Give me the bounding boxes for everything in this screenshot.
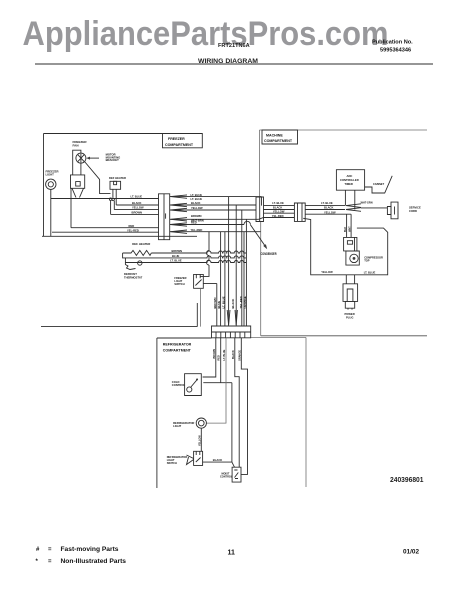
wire black out (170, 204, 256, 206)
feeder 6 with chevron (241, 210, 243, 326)
freezer bottom border (41, 326, 197, 328)
svg-text:*: * (36, 559, 39, 565)
freezer light (46, 179, 56, 189)
bracket arrow (88, 157, 99, 159)
feeder 1 (216, 284, 218, 327)
svg-text:BLACK: BLACK (273, 206, 282, 210)
service cord (391, 202, 398, 219)
svg-text:YELLOW: YELLOW (132, 206, 144, 210)
svg-text:LT. BLUE: LT. BLUE (364, 271, 376, 275)
svg-text:YELLOW: YELLOW (198, 435, 201, 446)
svg-text:YEL-RED: YEL-RED (191, 228, 203, 232)
feeder 2 (220, 232, 222, 326)
adc right stub to cabinet (365, 176, 393, 193)
svg-text:RED: RED (218, 355, 221, 360)
svg-text:SWITCH: SWITCH (174, 282, 184, 286)
wire yel-red (52, 231, 159, 233)
wires to power plug (345, 275, 347, 284)
svg-text:BRACKET: BRACKET (106, 158, 119, 162)
refrigerator top border left (157, 337, 212, 339)
svg-text:LT. BLUE: LT. BLUE (170, 259, 182, 263)
defrost heater element (123, 250, 152, 255)
diagonal to moist control (232, 462, 235, 467)
svg-text:FAN: FAN (73, 143, 79, 147)
refrigerator light (196, 418, 206, 428)
def plug legs (111, 189, 117, 214)
wire black jog (235, 338, 239, 467)
svg-text:#: # (36, 547, 40, 553)
svg-text:COMPARTMENT: COMPARTMENT (163, 349, 192, 353)
feeder 8 (245, 219, 247, 326)
wire red (71, 227, 159, 229)
svg-text:TIMER: TIMER (345, 182, 353, 186)
wire fan motor to def plug (85, 162, 111, 194)
svg-text:CABINET: CABINET (373, 183, 385, 186)
svg-text:LT. BLUE: LT. BLUE (321, 201, 333, 205)
cold control (185, 374, 202, 396)
svg-text:CORD: CORD (409, 209, 417, 213)
svg-text:MACHINE: MACHINE (266, 133, 283, 137)
feeder 4 with chevron (228, 197, 230, 326)
machine top border (260, 129, 428, 131)
svg-text:BLACK: BLACK (324, 206, 333, 210)
svg-text:DEF HEATER: DEF HEATER (109, 176, 126, 180)
defrost thermostat (125, 258, 135, 270)
svg-text:ADC: ADC (347, 174, 353, 178)
wire lt.blue out (170, 196, 262, 198)
svg-text:WHT-GRN: WHT-GRN (361, 202, 373, 205)
svg-text:BROWN: BROWN (172, 249, 183, 253)
svg-text:BROWN: BROWN (191, 214, 202, 218)
svg-text:BLACK: BLACK (232, 350, 235, 359)
svg-text:LIGHT: LIGHT (46, 173, 55, 177)
svg-text:RED: RED (191, 221, 197, 225)
svg-text:LIGHT: LIGHT (173, 424, 181, 428)
feeder 3 (224, 232, 226, 326)
refrigerator left border (156, 338, 158, 488)
relay (344, 237, 357, 251)
switch out wire (203, 283, 217, 285)
freezer label box (163, 134, 203, 148)
row1 drop inside connector (261, 197, 263, 206)
compressor enclosure (303, 218, 388, 274)
svg-text:FREEZER: FREEZER (168, 137, 185, 141)
svg-text:YELLOW: YELLOW (191, 206, 203, 210)
freezer right border stub (196, 303, 198, 327)
boundary connector (256, 197, 264, 222)
svg-text:240396801: 240396801 (390, 477, 424, 484)
wire orange jog (241, 338, 248, 475)
svg-text:RED: RED (129, 224, 135, 228)
svg-text:LT. BLUE: LT. BLUE (221, 296, 225, 308)
svg-text:YEL-RED: YEL-RED (127, 228, 139, 232)
svg-text:=: = (48, 547, 52, 553)
machine bottom border (261, 335, 427, 337)
svg-text:WHT: WHT (349, 226, 352, 232)
svg-text:YELLOW: YELLOW (273, 209, 285, 213)
freezer harness connector (159, 194, 170, 240)
wire yellow out (170, 209, 256, 211)
svg-text:=: = (48, 559, 52, 565)
def plug terminals (109, 198, 111, 200)
adc control box (336, 170, 364, 191)
wire red out (170, 224, 244, 226)
svg-text:BROWN: BROWN (213, 349, 216, 359)
svg-text:BLACK: BLACK (213, 458, 222, 462)
refrigerator top border right (251, 337, 306, 339)
wire brown out (170, 218, 259, 220)
fan shroud (73, 150, 81, 175)
wire to service cord (361, 207, 387, 209)
svg-text:5995364346: 5995364346 (380, 48, 411, 54)
svg-text:ORANGE: ORANGE (243, 296, 247, 308)
svg-text:LT. BLUE: LT. BLUE (272, 201, 284, 205)
svg-text:CONTROL: CONTROL (172, 383, 186, 387)
wire black down to switch row (231, 383, 233, 462)
svg-text:Non-Illustrated Parts: Non-Illustrated Parts (61, 559, 127, 565)
svg-text:SERVICE: SERVICE (409, 206, 421, 210)
svg-text:Fast-moving Parts: Fast-moving Parts (61, 547, 120, 553)
svg-text:ORANGE: ORANGE (239, 350, 242, 361)
svg-text:CONTROL: CONTROL (220, 476, 233, 479)
svg-text:YELLOW: YELLOW (324, 210, 336, 214)
svg-text:Publication No.: Publication No. (372, 40, 413, 46)
rows to compressor connector (264, 205, 295, 207)
svg-text:BLACK: BLACK (132, 201, 141, 205)
svg-text:PLUG: PLUG (346, 315, 353, 319)
wire lt.blue (51, 198, 159, 200)
freezer light wire down (50, 190, 52, 237)
junction chevrons (346, 204, 361, 212)
svg-text:CONTROLLER: CONTROLLER (340, 178, 359, 182)
freezer left border (43, 134, 45, 237)
svg-text:BROWN: BROWN (132, 211, 143, 215)
machine label box (262, 130, 298, 144)
wire fan housing to red row (70, 188, 72, 227)
svg-text:LT. BLUE: LT. BLUE (131, 195, 143, 199)
feeder 7 (243, 232, 245, 326)
svg-text:CONDENSER: CONDENSER (261, 252, 277, 256)
svg-text:11: 11 (228, 550, 236, 557)
svg-text:SWITCH: SWITCH (167, 461, 177, 465)
wire brown to cold control (203, 338, 216, 377)
relay feed wires (346, 214, 348, 237)
switch to moist control wire (203, 461, 232, 463)
svg-text:BLUE: BLUE (172, 254, 180, 258)
svg-text:FRT21TN6A: FRT21TN6A (218, 43, 250, 49)
wire lt.blue to light (206, 338, 226, 423)
wire blue (123, 253, 247, 258)
wire red to cold control (220, 338, 222, 383)
wire brown (111, 213, 159, 215)
svg-text:COMPARTMENT: COMPARTMENT (264, 139, 293, 143)
svg-text:BLACK: BLACK (191, 201, 200, 205)
def heater plug (110, 181, 121, 189)
adc legs (344, 190, 346, 205)
refrigerator right border (305, 338, 307, 488)
fan housing (71, 175, 85, 188)
refrigerator light switch (194, 451, 203, 465)
moist control (232, 467, 241, 482)
machine left border upper (259, 130, 261, 197)
overload (346, 251, 359, 265)
switch feed wire (201, 232, 210, 277)
svg-text:LT. BLUE: LT. BLUE (223, 349, 226, 360)
svg-text:BLACK: BLACK (231, 299, 235, 309)
freezer fan motor (76, 153, 86, 163)
svg-text:YEL-RED: YEL-RED (272, 214, 284, 218)
svg-text:TOP: TOP (364, 259, 370, 263)
ground wire along bottom (42, 235, 197, 237)
svg-text:YELLOW: YELLOW (321, 270, 333, 274)
wire black (116, 204, 158, 206)
svg-text:AppliancePartsPros.com: AppliancePartsPros.com (23, 15, 389, 53)
housing taper (72, 188, 84, 197)
switch box (194, 274, 204, 288)
wire yel-red out (170, 231, 261, 233)
wire from cold control right (203, 382, 232, 384)
rows right of compressor connector (305, 205, 345, 207)
svg-text:COMPARTMENT: COMPARTMENT (165, 143, 194, 147)
wire red hop and condenser arrow (244, 221, 250, 224)
compressor connector (294, 203, 305, 221)
svg-text:01/02: 01/02 (403, 549, 419, 556)
switch bottom wire (200, 288, 202, 326)
power plug (343, 284, 358, 302)
svg-text:DEF. HEATER: DEF. HEATER (132, 242, 150, 246)
svg-text:REFRIGERATOR: REFRIGERATOR (163, 343, 192, 347)
header rule (35, 63, 433, 65)
wire lt. blue defrost (125, 261, 246, 263)
svg-text:BLK: BLK (344, 227, 347, 232)
feeder 5 (235, 205, 237, 326)
svg-text:LT. BLUE: LT. BLUE (191, 193, 203, 197)
svg-text:THERMOSTAT: THERMOSTAT (124, 275, 143, 279)
svg-text:LT. BLUE: LT. BLUE (191, 197, 203, 201)
light to switch wire (200, 428, 202, 451)
machine left border lower (260, 222, 262, 336)
wire yellow (114, 209, 158, 211)
freezer top border (44, 133, 203, 135)
